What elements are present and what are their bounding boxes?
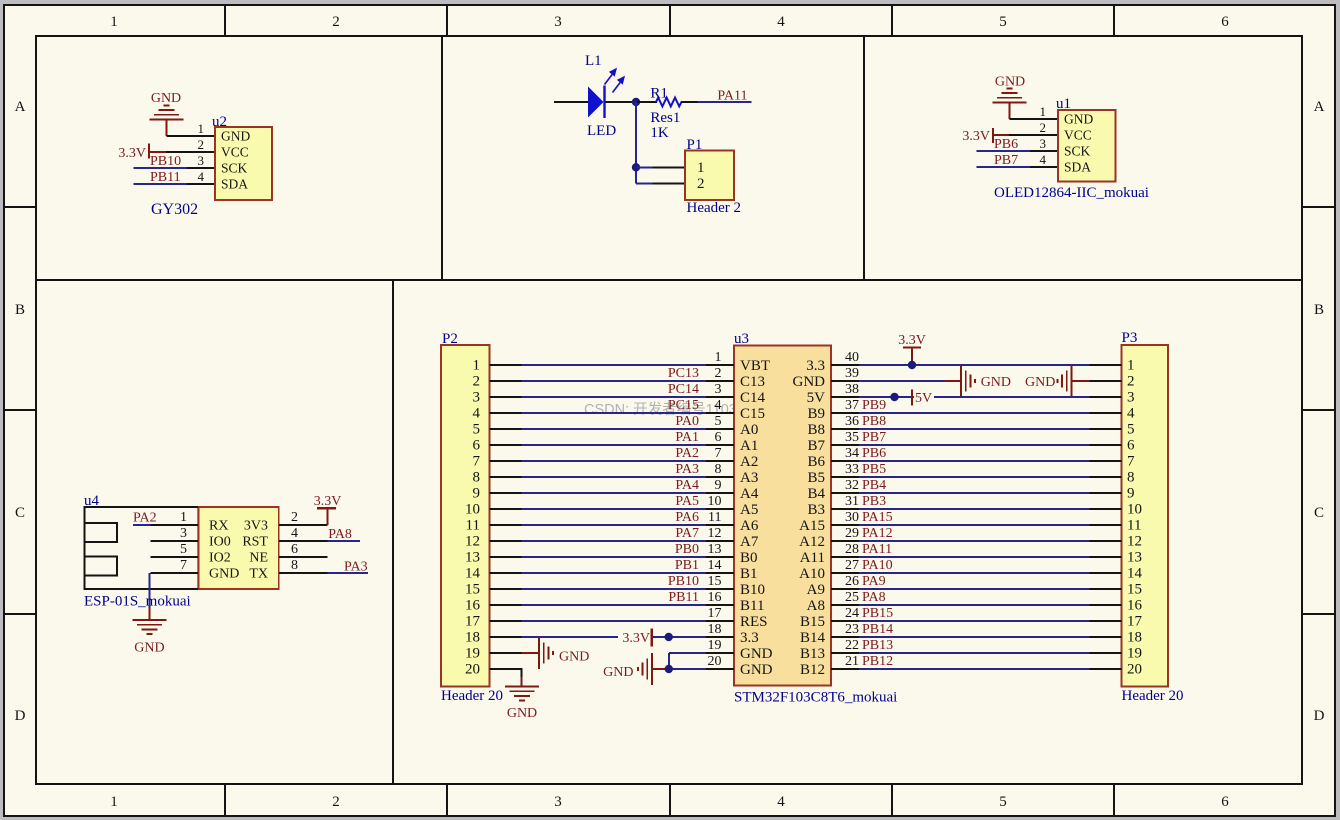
svg-text:GND: GND xyxy=(995,75,1025,90)
wire u3 pin22 to P3 pin19 xyxy=(831,652,1122,654)
net label PC15 (u3 pin4) xyxy=(668,398,699,413)
wire u3 pin40 to P3 pin1 xyxy=(831,364,1122,366)
net label PA3 (u3 pin8) xyxy=(675,462,699,477)
net label PB9 (u3 pin37) xyxy=(862,398,886,413)
net label PA2 / wire u4 pin1 xyxy=(133,511,199,526)
svg-text:PA7: PA7 xyxy=(675,526,699,541)
u3 pin number 39 xyxy=(845,366,859,381)
svg-text:3.3V: 3.3V xyxy=(314,494,342,509)
svg-text:9: 9 xyxy=(473,486,481,502)
svg-text:PB0: PB0 xyxy=(675,542,699,557)
svg-text:Header 2: Header 2 xyxy=(687,200,742,216)
wire u3 pin34 to P3 pin7 xyxy=(831,460,1122,462)
svg-text:1: 1 xyxy=(473,358,481,374)
junction node at P1 pin1 xyxy=(632,163,640,171)
wire u3 pin39 to GND xyxy=(831,380,961,382)
power port GND (P2 pin19) xyxy=(539,637,589,669)
svg-text:A6: A6 xyxy=(740,518,759,534)
svg-text:PB14: PB14 xyxy=(862,622,893,637)
svg-text:3.3V: 3.3V xyxy=(118,146,146,161)
u3 pin number 24 xyxy=(845,606,859,621)
svg-text:A: A xyxy=(15,99,26,115)
svg-text:23: 23 xyxy=(845,622,859,637)
svg-text:3.3V: 3.3V xyxy=(622,631,650,646)
svg-text:33: 33 xyxy=(845,462,859,477)
svg-text:16: 16 xyxy=(708,590,722,605)
svg-text:PC13: PC13 xyxy=(668,366,699,381)
designator u2 xyxy=(212,114,227,130)
svg-text:2: 2 xyxy=(1040,120,1047,135)
svg-text:2: 2 xyxy=(473,374,481,390)
svg-text:17: 17 xyxy=(465,614,481,630)
svg-text:7: 7 xyxy=(715,446,722,461)
svg-text:15: 15 xyxy=(708,574,722,589)
svg-text:16: 16 xyxy=(1127,598,1143,614)
wire u3 pin36 to P3 pin5 xyxy=(831,428,1122,430)
connector P2 Header 20 body xyxy=(441,345,490,687)
svg-text:3: 3 xyxy=(473,390,481,406)
junction node 3.3V row18 xyxy=(665,633,673,641)
wire into LED anode xyxy=(554,101,588,103)
svg-text:GND: GND xyxy=(221,129,250,144)
svg-text:B6: B6 xyxy=(807,454,825,470)
svg-text:B4: B4 xyxy=(807,486,825,502)
svg-text:PA9: PA9 xyxy=(862,574,886,589)
u3 pin number 35 xyxy=(845,430,859,445)
svg-text:PB5: PB5 xyxy=(862,462,886,477)
svg-text:27: 27 xyxy=(845,558,859,573)
svg-text:B1: B1 xyxy=(740,566,758,582)
svg-text:3: 3 xyxy=(1127,390,1135,406)
svg-text:PB9: PB9 xyxy=(862,398,886,413)
svg-text:3.3V: 3.3V xyxy=(962,129,990,144)
wire u3 pin29 to P3 pin12 xyxy=(831,540,1122,542)
svg-text:PB10: PB10 xyxy=(150,154,181,169)
svg-text:1: 1 xyxy=(198,121,205,136)
pin numbers 2 4 6 8 xyxy=(291,510,298,573)
svg-text:2: 2 xyxy=(198,137,205,152)
svg-text:u2: u2 xyxy=(212,114,227,130)
svg-text:P3: P3 xyxy=(1122,330,1138,346)
svg-text:RES: RES xyxy=(740,614,768,630)
svg-text:4: 4 xyxy=(777,14,785,30)
svg-text:SCK: SCK xyxy=(221,161,248,176)
svg-text:17: 17 xyxy=(708,606,722,621)
wire u3 pin27 to P3 pin14 xyxy=(831,572,1122,574)
power port 3.3V (u2) xyxy=(118,144,166,162)
net label PA4 (u3 pin9) xyxy=(675,478,699,493)
svg-text:19: 19 xyxy=(708,638,722,653)
resistor R1 zigzag xyxy=(656,98,681,107)
svg-text:2: 2 xyxy=(332,14,340,30)
svg-text:6: 6 xyxy=(1221,794,1229,810)
svg-text:10: 10 xyxy=(465,502,480,518)
u3 pin number 14 xyxy=(708,558,722,573)
svg-text:6: 6 xyxy=(473,438,481,454)
svg-text:A4: A4 xyxy=(740,486,759,502)
wire u3 pin21 to P3 pin20 xyxy=(831,668,1122,670)
resistor R1 pin stub left xyxy=(636,101,657,103)
svg-text:B8: B8 xyxy=(807,422,825,438)
u3 pin number 22 xyxy=(845,638,859,653)
svg-text:A2: A2 xyxy=(740,454,758,470)
wire P2 pin13 to u3 pin13 xyxy=(490,556,735,558)
svg-text:19: 19 xyxy=(465,646,480,662)
svg-text:20: 20 xyxy=(708,654,722,669)
wire P2 pin15 to u3 pin15 xyxy=(490,588,735,590)
net label PB0 (u3 pin13) xyxy=(675,542,699,557)
net label PA5 (u3 pin10) xyxy=(675,494,699,509)
svg-text:1: 1 xyxy=(180,510,187,525)
wire P2 pin5 to u3 pin5 xyxy=(490,428,735,430)
svg-text:A11: A11 xyxy=(800,550,825,566)
u3 pin number 33 xyxy=(845,462,859,477)
svg-text:8: 8 xyxy=(1127,470,1135,486)
comment OLED12864-IIC_mokuai xyxy=(994,185,1149,201)
svg-text:1K: 1K xyxy=(650,125,669,141)
svg-text:15: 15 xyxy=(465,582,480,598)
svg-text:PB8: PB8 xyxy=(862,414,886,429)
svg-text:4: 4 xyxy=(1040,152,1047,167)
svg-text:B7: B7 xyxy=(807,438,825,454)
svg-text:17: 17 xyxy=(1127,614,1143,630)
power port GND (u1) xyxy=(993,75,1027,120)
svg-text:PB4: PB4 xyxy=(862,478,886,493)
wire u3 pin32 to P3 pin9 xyxy=(831,492,1122,494)
svg-text:5: 5 xyxy=(715,414,722,429)
svg-text:7: 7 xyxy=(1127,454,1135,470)
svg-text:D: D xyxy=(15,708,26,724)
net label PA15 (u3 pin30) xyxy=(862,510,893,525)
net label PC14 (u3 pin3) xyxy=(668,382,699,397)
svg-text:11: 11 xyxy=(708,510,721,525)
svg-text:C: C xyxy=(1314,505,1324,521)
svg-text:PA10: PA10 xyxy=(862,558,893,573)
u3 pin number 15 xyxy=(708,574,722,589)
LED L1 diode symbol xyxy=(588,69,624,118)
svg-text:GND: GND xyxy=(981,375,1011,390)
wire u3 pin20 to GND xyxy=(653,668,735,670)
svg-text:25: 25 xyxy=(845,590,859,605)
svg-text:GND: GND xyxy=(209,567,239,582)
wire P2 pin17 to u3 pin17 xyxy=(490,620,735,622)
net label PA7 (u3 pin12) xyxy=(675,526,699,541)
svg-text:Header 20: Header 20 xyxy=(1122,688,1184,704)
svg-text:2: 2 xyxy=(1127,374,1135,390)
svg-text:PB12: PB12 xyxy=(862,654,893,669)
svg-text:37: 37 xyxy=(845,398,859,413)
svg-text:38: 38 xyxy=(845,382,859,397)
u3 pin number 28 xyxy=(845,542,859,557)
svg-text:7: 7 xyxy=(473,454,481,470)
svg-text:9: 9 xyxy=(715,478,722,493)
net label PB6 (u3 pin34) xyxy=(862,446,886,461)
svg-text:A: A xyxy=(1314,99,1325,115)
wire P3 pin2 to GND xyxy=(1072,380,1122,382)
comment ESP-01S_mokuai xyxy=(84,594,191,610)
svg-text:PB7: PB7 xyxy=(862,430,886,445)
designator P1 xyxy=(687,137,703,153)
wire u3 pin33 to P3 pin8 xyxy=(831,476,1122,478)
watermark xyxy=(584,401,737,418)
u3 pin number 25 xyxy=(845,590,859,605)
svg-text:10: 10 xyxy=(1127,502,1142,518)
svg-text:3: 3 xyxy=(554,14,562,30)
power port GND (u4) xyxy=(132,608,166,656)
u3 pin number 37 xyxy=(845,398,859,413)
svg-text:1: 1 xyxy=(697,160,705,176)
svg-text:34: 34 xyxy=(845,446,859,461)
svg-text:15: 15 xyxy=(1127,582,1142,598)
comment LED xyxy=(587,123,616,139)
wire P2 pin7 to u3 pin7 xyxy=(490,460,735,462)
svg-text:LED: LED xyxy=(587,123,616,139)
power port 3.3V (u3 pin40) xyxy=(898,333,926,365)
power port GND (u2) xyxy=(150,91,184,136)
svg-text:GND: GND xyxy=(507,706,537,721)
svg-text:40: 40 xyxy=(845,350,859,365)
power port 3.3V (u1) xyxy=(962,128,1009,144)
svg-text:B15: B15 xyxy=(800,614,825,630)
svg-text:11: 11 xyxy=(1127,518,1141,534)
designator u1 xyxy=(1056,96,1071,112)
u3 pin number 6 xyxy=(715,430,722,445)
svg-text:GND: GND xyxy=(1064,112,1093,127)
net label PB6 / wire u1 pin3 xyxy=(977,137,1059,152)
svg-text:P2: P2 xyxy=(442,331,458,347)
svg-text:3: 3 xyxy=(554,794,562,810)
u4 pin6 stub xyxy=(279,556,328,558)
power port GND (P2 pin20) xyxy=(505,687,539,722)
svg-text:4: 4 xyxy=(198,169,205,184)
net label PB15 (u3 pin24) xyxy=(862,606,893,621)
svg-text:Header 20: Header 20 xyxy=(441,688,503,704)
wire u1 pin1 to GND xyxy=(1010,118,1059,120)
svg-text:3: 3 xyxy=(180,526,187,541)
svg-text:4: 4 xyxy=(715,398,722,413)
svg-text:13: 13 xyxy=(1127,550,1142,566)
svg-text:PB10: PB10 xyxy=(668,574,699,589)
svg-text:R1: R1 xyxy=(650,86,668,102)
svg-text:VCC: VCC xyxy=(1064,128,1092,143)
net label PA11 xyxy=(717,89,747,104)
svg-text:SCK: SCK xyxy=(1064,144,1091,159)
wire P2 pin2 to u3 pin2 xyxy=(490,380,735,382)
svg-text:35: 35 xyxy=(845,430,859,445)
wire P1 pin2 xyxy=(636,182,685,184)
wire u3 pin28 to P3 pin13 xyxy=(831,556,1122,558)
svg-text:8: 8 xyxy=(473,470,481,486)
wire P2 pin20 to GND xyxy=(490,669,523,687)
svg-text:6: 6 xyxy=(715,430,722,445)
svg-text:1: 1 xyxy=(715,350,722,365)
u3 pin number 12 xyxy=(708,526,722,541)
wire P2 pin4 to u3 pin4 xyxy=(490,412,735,414)
u4 pin8 stub / net label PA3 xyxy=(279,560,368,575)
svg-text:GND: GND xyxy=(151,91,181,106)
u3 pin number 10 xyxy=(708,494,722,509)
junction node at LED/R1 xyxy=(632,98,640,106)
svg-text:GND: GND xyxy=(740,662,773,678)
power port 3.3V (u3 pin18) xyxy=(618,629,653,647)
svg-text:11: 11 xyxy=(466,518,480,534)
svg-text:4: 4 xyxy=(291,526,298,541)
svg-text:A3: A3 xyxy=(740,470,758,486)
net label PA8 (u3 pin25) xyxy=(862,590,886,605)
svg-text:3: 3 xyxy=(715,382,722,397)
u3 pin number 4 xyxy=(715,398,722,413)
svg-text:5: 5 xyxy=(473,422,481,438)
net label PB11 (u3 pin16) xyxy=(668,590,699,605)
comment Res1 xyxy=(650,110,680,126)
net label PA9 (u3 pin26) xyxy=(862,574,886,589)
svg-text:12: 12 xyxy=(465,534,480,550)
svg-text:PB15: PB15 xyxy=(862,606,893,621)
svg-text:PA15: PA15 xyxy=(862,510,893,525)
svg-text:7: 7 xyxy=(180,558,187,573)
svg-text:RX: RX xyxy=(209,519,228,534)
svg-text:4: 4 xyxy=(1127,406,1135,422)
svg-text:5: 5 xyxy=(180,542,187,557)
svg-text:24: 24 xyxy=(845,606,859,621)
svg-text:A0: A0 xyxy=(740,422,758,438)
svg-text:GND: GND xyxy=(134,641,164,656)
svg-text:36: 36 xyxy=(845,414,859,429)
wire u3 pin23 to P3 pin18 xyxy=(831,636,1122,638)
svg-text:2: 2 xyxy=(715,366,722,381)
svg-text:6: 6 xyxy=(1127,438,1135,454)
svg-text:B10: B10 xyxy=(740,582,765,598)
u3 pin number 2 xyxy=(715,366,722,381)
svg-text:B3: B3 xyxy=(807,502,825,518)
svg-text:SDA: SDA xyxy=(221,177,248,192)
net label PB7 / wire u1 pin4 xyxy=(977,153,1059,168)
svg-text:PA3: PA3 xyxy=(344,560,368,575)
wire P2 pin8 to u3 pin8 xyxy=(490,476,735,478)
svg-text:18: 18 xyxy=(1127,630,1142,646)
component u1 OLED body xyxy=(1040,104,1116,182)
wire u3 pin19 down to pin20 net xyxy=(669,653,734,669)
svg-text:A10: A10 xyxy=(799,566,825,582)
wire P2 pin10 to u3 pin10 xyxy=(490,508,735,510)
net label PA6 (u3 pin11) xyxy=(675,510,699,525)
svg-text:PA11: PA11 xyxy=(717,89,747,104)
svg-text:3V3: 3V3 xyxy=(244,519,268,534)
svg-text:8: 8 xyxy=(291,558,298,573)
svg-text:30: 30 xyxy=(845,510,859,525)
net label PB13 (u3 pin22) xyxy=(862,638,893,653)
svg-text:P1: P1 xyxy=(687,137,703,153)
svg-text:3.3V: 3.3V xyxy=(898,333,926,348)
svg-text:Res1: Res1 xyxy=(650,110,680,126)
svg-text:B13: B13 xyxy=(800,646,825,662)
wire P2 pin6 to u3 pin6 xyxy=(490,444,735,446)
u3 pin number 8 xyxy=(715,462,722,477)
u3 pin number 40 xyxy=(845,350,859,365)
svg-text:10: 10 xyxy=(708,494,722,509)
wire u2 pin2 xyxy=(166,151,215,153)
svg-text:TX: TX xyxy=(249,567,268,582)
svg-text:PA12: PA12 xyxy=(862,526,893,541)
svg-text:5: 5 xyxy=(999,794,1007,810)
svg-text:12: 12 xyxy=(1127,534,1142,550)
svg-text:2: 2 xyxy=(332,794,340,810)
svg-text:1: 1 xyxy=(110,14,118,30)
svg-text:PB11: PB11 xyxy=(668,590,699,605)
svg-text:B14: B14 xyxy=(800,630,826,646)
connector P3 Header 20 body xyxy=(1122,345,1169,687)
u3 pin number 32 xyxy=(845,478,859,493)
net label PA2 (u3 pin7) xyxy=(675,446,699,461)
wire u4 pin7 down to ground xyxy=(148,573,150,608)
svg-text:B5: B5 xyxy=(807,470,825,486)
u3 pin number 20 xyxy=(708,654,722,669)
svg-text:6: 6 xyxy=(1221,14,1229,30)
svg-text:A1: A1 xyxy=(740,438,758,454)
wire P1 pin1 xyxy=(636,166,685,168)
svg-text:GY302: GY302 xyxy=(151,201,198,218)
u4 pin3 stub xyxy=(150,540,198,542)
svg-text:5V: 5V xyxy=(915,391,932,406)
u3 pin number 17 xyxy=(708,606,722,621)
svg-text:8: 8 xyxy=(715,462,722,477)
net label PC13 (u3 pin2) xyxy=(668,366,699,381)
u3 pin number 3 xyxy=(715,382,722,397)
wire u2 pin1 to GND xyxy=(167,135,216,137)
comment Header 20 (P2) xyxy=(441,688,503,704)
u4 pin2 stub xyxy=(279,524,328,526)
svg-text:PA3: PA3 xyxy=(675,462,699,477)
net label PA10 (u3 pin27) xyxy=(862,558,893,573)
wire LED cathode to junction xyxy=(606,101,637,103)
component u3 STM32F103C8T6 body xyxy=(734,346,831,686)
svg-text:32: 32 xyxy=(845,478,859,493)
u4 pin7 stub xyxy=(150,572,198,574)
svg-text:18: 18 xyxy=(708,622,722,637)
designator P2 xyxy=(442,331,458,347)
svg-text:19: 19 xyxy=(1127,646,1142,662)
svg-text:PB13: PB13 xyxy=(862,638,893,653)
svg-text:C14: C14 xyxy=(740,390,766,406)
svg-text:9: 9 xyxy=(1127,486,1135,502)
u3 pin number 9 xyxy=(715,478,722,493)
wire u3 pin31 to P3 pin10 xyxy=(831,508,1122,510)
wire P2 pin11 to u3 pin11 xyxy=(490,524,735,526)
wire P2 pin18 to u3 pin18 xyxy=(490,636,735,638)
svg-text:PA4: PA4 xyxy=(675,478,699,493)
svg-text:SDA: SDA xyxy=(1064,160,1091,175)
power port GND (P3 pin2) xyxy=(1025,365,1071,397)
svg-text:PB11: PB11 xyxy=(150,170,181,185)
net label PA1 (u3 pin6) xyxy=(675,430,699,445)
svg-text:20: 20 xyxy=(1127,662,1142,678)
svg-text:2: 2 xyxy=(291,510,298,525)
svg-text:5: 5 xyxy=(999,14,1007,30)
comment 1K xyxy=(650,125,669,141)
wire u3 pin35 to P3 pin6 xyxy=(831,444,1122,446)
net label PB4 (u3 pin32) xyxy=(862,478,886,493)
u3 pin number 21 xyxy=(845,654,859,669)
svg-text:3.3: 3.3 xyxy=(806,358,825,374)
svg-text:C13: C13 xyxy=(740,374,765,390)
u3 pin number 27 xyxy=(845,558,859,573)
wire P2 pin9 to u3 pin9 xyxy=(490,492,735,494)
u3 pin number 7 xyxy=(715,446,722,461)
svg-text:PA2: PA2 xyxy=(133,511,157,526)
svg-text:C15: C15 xyxy=(740,406,765,422)
svg-text:13: 13 xyxy=(465,550,480,566)
u3 pin number 26 xyxy=(845,574,859,589)
